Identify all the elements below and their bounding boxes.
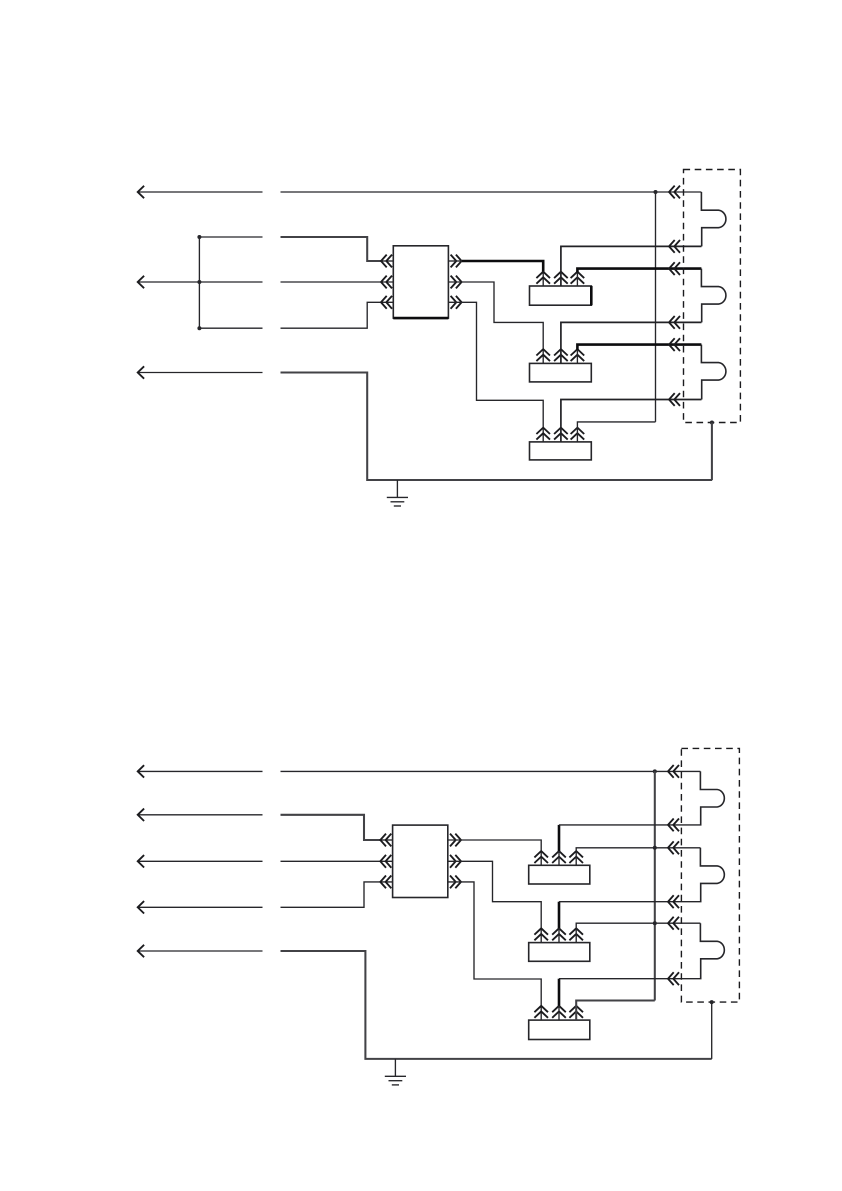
wire: branch to X1 pin 3 (top) — [199, 302, 393, 328]
wire: right vertical bus (bottom) — [654, 771, 656, 1000]
wire W1: harness line 1 to lamp housing bulb 1 feed (top) — [137, 191, 701, 193]
wire: ground bus run (top) — [281, 373, 713, 481]
wire: splice S2 mid to bulb 2 return (top) — [561, 322, 702, 349]
wire: housing ground drop (top) — [711, 423, 713, 481]
wire: splice S6 right to right bus (bottom) — [576, 1001, 655, 1021]
pin chevron X1-R1 (top) — [451, 255, 462, 268]
pin chevron X1-R2 (top) — [451, 276, 462, 289]
wire: X2-R2 to splice S5 left pin (bottom) — [448, 861, 541, 942]
wire: splice S1 mid to bulb 1 return (top) — [561, 246, 702, 272]
pin chevron housing 1 (bottom) — [668, 765, 679, 778]
wire: splice S5 mid to bulb 2 return (bottom) — [559, 901, 702, 903]
splice block S6 (bottom) — [529, 1020, 590, 1039]
pin chevron S2-3 (top) — [571, 349, 585, 361]
wire: X1-R1 stub (top) — [448, 260, 462, 262]
bulb E5 (bottom) — [700, 848, 724, 902]
pin chevron S3-1 (top) — [536, 428, 550, 440]
pin chevron S2-2 (top) — [554, 349, 568, 361]
splice block S4 (bottom) — [529, 865, 590, 884]
pin chevron housing 4 (top) — [669, 316, 680, 329]
wire: X1-R3 to splice S3 left pin (top) — [448, 302, 543, 442]
wire: X2-R3 to splice S6 left pin (bottom) — [448, 882, 541, 1020]
pin chevron X2-L1 (bottom) — [380, 834, 391, 847]
pin chevron X2-R3 (bottom) — [450, 876, 461, 889]
wire: left junction bus (top) — [198, 237, 200, 328]
pin chevron S2-1 (top) — [536, 349, 550, 361]
pin chevron X1-L3 (top) — [381, 296, 392, 309]
wire: branch to X1 pin 1 (top) — [199, 236, 262, 238]
arrowhead W7 (bottom line 4) — [138, 901, 144, 913]
wire: X1 pin 1 stub (top) — [381, 260, 393, 262]
wire: S5 mid pin stem (bottom) — [558, 928, 560, 942]
wire: splice S3 mid stem (top) — [560, 428, 562, 442]
lamp housing dashed outline (top) — [684, 170, 741, 423]
pin chevron S4-1 (bottom) — [534, 851, 548, 863]
wire: S6 mid pin stem (bottom) — [558, 1006, 560, 1020]
junction W1 / right bus (top) — [654, 190, 658, 194]
bulb E6 (bottom) — [700, 923, 724, 979]
pin chevron housing 2 (top) — [669, 240, 680, 253]
wire: splice S5 right to bulb 3 feed (bottom) — [576, 923, 700, 942]
connector block X2 (bottom) — [393, 825, 448, 897]
pin chevron housing 5 (top) — [669, 338, 680, 351]
pin chevron housing 3 (bottom) — [668, 841, 679, 854]
junction left bus bottom (top) — [197, 326, 201, 330]
pin chevron housing 5 (bottom) — [668, 917, 679, 930]
wire: S1 left pin stem (top) — [542, 272, 544, 286]
pin chevron S6-3 (bottom) — [569, 1006, 583, 1018]
pin chevron S1-1 (top) — [536, 272, 550, 284]
wire: ground bus run (bottom) — [281, 951, 712, 1059]
wire W5: harness line 2 to X2 pin 1 (bottom) — [137, 814, 262, 816]
wire W7: harness line 4 to X2 pin 3 (bottom) — [137, 882, 392, 907]
wire: X1-R2 to splice S2 left pin (top) — [448, 282, 543, 363]
splice block S1 (top) — [530, 286, 592, 305]
pin chevron S1-2 (top) — [554, 272, 568, 284]
wire W3: harness ground lead (top) — [137, 372, 262, 374]
arrowhead W4 (bottom line 1) — [138, 765, 144, 777]
pin chevron X2-L3 (bottom) — [380, 876, 391, 889]
pin chevron housing 3 (top) — [669, 262, 680, 275]
wire: splice S4 mid stem (bold, bottom) — [558, 825, 561, 851]
pin chevron S5-1 (bottom) — [534, 928, 548, 940]
bulb E2 (top) — [701, 269, 726, 323]
arrowhead W5 (bottom line 2) — [138, 809, 144, 821]
splice block S5 (bottom) — [529, 943, 590, 962]
junction housing ground tap (top) — [710, 421, 714, 425]
pin chevron housing 6 (bottom) — [668, 972, 679, 985]
pin chevron X1-L1 (top) — [381, 255, 392, 268]
pin chevron housing 1 (top) — [669, 186, 680, 199]
wire: splice S2 right to bulb 3 feed (bold, top) — [577, 345, 701, 350]
wire: X2-R1 to splice S4 left pin (bottom) — [448, 840, 541, 865]
junction bus / bulb 3 feed (bottom) — [653, 921, 657, 925]
wire: S2 right pin stem (top) — [576, 350, 578, 364]
wire: splice S3 mid to bulb 3 return (top) — [561, 400, 702, 428]
arrowhead W6 (bottom line 3) — [138, 855, 144, 867]
splice block S2 (top) — [530, 363, 592, 382]
wire: housing ground drop (bottom) — [711, 1002, 713, 1059]
bulb E1 (top) — [701, 192, 726, 246]
wire: S4 mid pin stem (bottom) — [558, 851, 560, 865]
wire: W5 jog into X2 pin 1 (bottom) — [281, 815, 381, 840]
arrowhead W3 (top line 3) — [138, 366, 144, 378]
wire: S1 right pin stem (top) — [576, 272, 578, 286]
wire: splice S2 mid stem (top) — [560, 349, 562, 363]
pin chevron X1-R3 (top) — [451, 296, 462, 309]
ground G1 (top) — [387, 480, 408, 506]
junction W4 / right bus (bottom) — [653, 769, 657, 773]
pin chevron S5-3 (bottom) — [569, 928, 583, 940]
wire: splice S3 right to right bus (top) — [577, 422, 655, 442]
wire: X2 pin 1 stub (bottom) — [380, 839, 392, 841]
pin chevron S4-2 (bottom) — [552, 851, 566, 863]
junction left bus top (top) — [197, 235, 201, 239]
junction left bus mid (top) — [197, 280, 201, 284]
ground G2 (bottom) — [385, 1059, 406, 1085]
pin chevron X2-R2 (bottom) — [450, 855, 461, 868]
wire: splice S4 mid to bulb 1 return (bottom) — [559, 824, 702, 826]
junction bus / bulb 2 feed (bottom) — [653, 846, 657, 850]
wire: splice S6 mid to bulb 3 return (bottom) — [559, 978, 702, 980]
arrowhead W1 (top line 1) — [138, 186, 144, 198]
wire: right vertical bus (top) — [655, 192, 657, 422]
splice block S3 (top) — [530, 442, 592, 460]
pin chevron X2-R1 (bottom) — [450, 834, 461, 847]
wire: splice S4 right to bulb 2 feed (bottom) — [576, 848, 700, 866]
pin chevron S3-2 (top) — [554, 428, 568, 440]
wire: splice S1 right to bulb 2 feed (bold, top) — [577, 269, 701, 273]
wire: splice S6 mid stem (bold, bottom) — [558, 979, 561, 1006]
arrowhead W8 (bottom line 5) — [138, 945, 144, 957]
wire: splice S5 mid stem (bold, bottom) — [558, 902, 561, 929]
pin chevron S6-2 (bottom) — [552, 1006, 566, 1018]
wire W8: harness ground lead (bottom) — [137, 950, 262, 952]
pin chevron S6-1 (bottom) — [534, 1006, 548, 1018]
pin chevron housing 2 (bottom) — [668, 819, 679, 832]
junction housing ground tap (bottom) — [710, 1000, 714, 1004]
wire: X1-R1 to splice S1 left pin (bold, top) — [462, 261, 543, 272]
pin chevron S5-2 (bottom) — [552, 928, 566, 940]
wire: splice S1 mid stem (top) — [560, 272, 562, 286]
wire W6: harness line 3 to X2 pin 2 (bottom) — [137, 860, 392, 862]
connector block X1 (top) — [393, 246, 448, 318]
wire W4: harness line 1 to lamp housing bulb 1 feed (bottom) — [137, 770, 700, 772]
bulb E3 (top) — [701, 345, 726, 400]
pin chevron S1-3 (top) — [571, 272, 585, 284]
pin chevron housing 6 (top) — [669, 393, 680, 406]
pin chevron S3-3 (top) — [571, 428, 585, 440]
pin chevron X1-L2 (top) — [381, 276, 392, 289]
wire: branch jog into X1 pin 1 (top) — [281, 237, 382, 261]
bulb E4 (bottom) — [700, 771, 724, 825]
pin chevron S4-3 (bottom) — [569, 851, 583, 863]
pin chevron housing 4 (bottom) — [668, 895, 679, 908]
pin chevron X2-L2 (bottom) — [380, 855, 391, 868]
wire W2: harness line 2 to X1 pin 2 (top) — [137, 281, 393, 283]
lamp housing dashed outline (bottom) — [681, 748, 739, 1002]
arrowhead W2 (top line 2) — [138, 276, 144, 288]
